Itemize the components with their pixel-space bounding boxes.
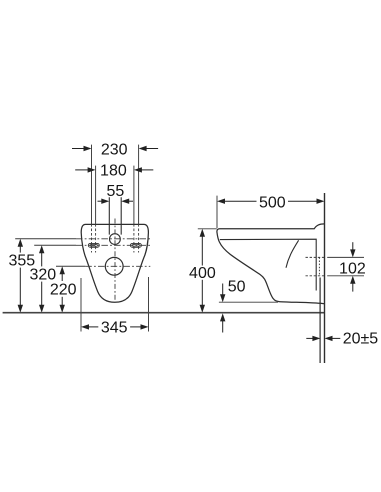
- big drain circle: [105, 257, 123, 275]
- dim 102: [327, 242, 366, 291]
- dim 500: [217, 194, 325, 228]
- 345 extension lines: [80, 278, 82, 332]
- centerline through small circle (355 datum): [15, 238, 76, 240]
- svg-text:20±5: 20±5: [343, 331, 379, 348]
- 180 extension line right: [133, 166, 135, 224]
- flush pipe lines (55 wide): [109, 197, 121, 234]
- 180 extension line left: [95, 166, 97, 224]
- floor datum line: [3, 312, 325, 314]
- dim 400: [189, 229, 217, 313]
- svg-text:345: 345: [101, 319, 128, 336]
- dim 220 vertical: [50, 266, 77, 312]
- svg-text:180: 180: [100, 163, 127, 180]
- dim 230: [72, 142, 158, 159]
- side outline: [217, 224, 325, 304]
- toilet front outline: [81, 224, 148, 302]
- wall line: [324, 193, 326, 363]
- svg-text:102: 102: [339, 260, 366, 277]
- dim 345: [81, 319, 149, 336]
- svg-text:500: 500: [259, 194, 286, 211]
- svg-text:220: 220: [50, 282, 77, 299]
- 230 extension line left: [91, 145, 93, 224]
- inner rim and back line: [220, 239, 316, 290]
- left fixing slot: [88, 243, 99, 247]
- centerline through slots (320 datum): [34, 244, 76, 246]
- svg-text:55: 55: [107, 183, 125, 200]
- 230 extension line right: [138, 145, 140, 224]
- svg-text:400: 400: [189, 265, 216, 282]
- dim 50: [219, 279, 278, 333]
- dim 180: [75, 163, 153, 180]
- right fixing slot: [130, 243, 141, 247]
- vertical centerline of front view: [114, 219, 116, 302]
- outlet dashed lines: [306, 256, 325, 258]
- dim 355 vertical: [8, 239, 35, 313]
- svg-text:230: 230: [101, 142, 128, 159]
- dim 320 vertical: [29, 245, 56, 312]
- small flush hole circle: [110, 234, 121, 245]
- dim 20±5: [306, 331, 378, 348]
- dim 55: [98, 183, 134, 204]
- svg-text:50: 50: [228, 279, 246, 296]
- trap curve: [286, 240, 299, 267]
- centerline through big circle (220 datum): [56, 265, 85, 267]
